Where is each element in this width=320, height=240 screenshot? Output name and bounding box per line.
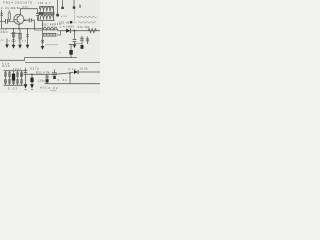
electrolytic C plus wire down x71 [69, 44, 74, 46]
small label mid [59, 20, 69, 24]
cap column x82 [81, 36, 83, 45]
label 455 [61, 16, 68, 18]
transistor label TR24 2SC1675 [3, 1, 32, 5]
wire vertical x34.5 [34, 20, 36, 30]
label AGC left [1, 30, 8, 34]
faint pencil text rows top right [77, 16, 97, 17]
bias column 3 [27, 29, 29, 46]
wire emitter down [18, 24, 20, 29]
transformer side wires [39, 6, 54, 20]
ground arrow x25.5 [24, 84, 28, 88]
ladder column 2 [9, 71, 11, 86]
resistor zigzag on wire [88, 29, 96, 33]
text below [38, 80, 46, 83]
column x25.5 cap [25, 69, 27, 85]
wire top right x74 with terminal [73, 0, 75, 7]
ladder column 3 dark [13, 71, 15, 86]
bottom long wire [45, 83, 101, 85]
coil L1 horizontal [43, 27, 57, 30]
polarity mark + [60, 52, 62, 55]
junction blob x57.5 [56, 14, 59, 17]
labels 1.0 37u [25, 68, 40, 71]
electrolytic at x54.5 [54, 69, 56, 72]
faint feed wire [74, 9, 76, 21]
cap column x87.5 [87, 37, 89, 45]
resistor R11 vertical [8, 13, 10, 20]
arrow col2 [18, 45, 22, 49]
ladder bottom text [8, 87, 18, 91]
transformer T1 primary winding [40, 7, 53, 12]
audio wire main [24, 73, 53, 75]
bus wire B long [25, 61, 100, 63]
label C14 [1, 29, 8, 32]
text 1N60 [60, 25, 75, 28]
transformer T1 core [39, 13, 55, 15]
diode D2 [74, 70, 78, 74]
junction dot +B [70, 21, 72, 23]
detector wire [58, 30, 101, 32]
ground arrow x32 [30, 84, 34, 88]
label S1 [2, 61, 10, 65]
ladder column 1 [5, 71, 7, 86]
transistor Q1 circle [14, 14, 24, 24]
ladder column 5 [21, 71, 23, 86]
chassis ticks [25, 88, 33, 90]
ladder block label [3, 64, 22, 71]
value text above transformer T1 [38, 1, 52, 5]
bias column 2 [19, 29, 21, 46]
column x32 blob [31, 74, 33, 84]
label 100 [55, 23, 62, 26]
ladder top bus [4, 70, 24, 72]
junction dot x32 [31, 74, 33, 76]
junction dot [74, 30, 76, 32]
bias column 1 [13, 29, 15, 46]
text R31 4.7k [36, 71, 50, 75]
label 0.1 [48, 72, 54, 74]
capacitor C33 to bottom rail [46, 74, 48, 83]
cap column x74.5 [74, 31, 76, 45]
transformer T1 top line [40, 5, 54, 7]
arrow col3 [26, 45, 30, 49]
wire top feed x57.5 [57, 0, 59, 15]
label row left values [1, 6, 21, 10]
wire collector up [21, 9, 38, 15]
wire to coil [35, 29, 43, 31]
output wire [78, 71, 100, 73]
wire left edge vertical [1, 10, 3, 29]
winding row 2 hatched [43, 33, 57, 36]
capacitor C11 bars on base wire [6, 19, 8, 24]
wire top right x62.5 with terminal [62, 0, 64, 8]
emitter bus horizontal [1, 28, 43, 30]
text 3.3k [58, 78, 68, 82]
transformer T1 bottom line [39, 20, 55, 22]
paper grain overlay [0, 0, 100, 93]
arrow col x42.5 [41, 46, 45, 50]
text S2 [40, 87, 47, 90]
transformer T1 secondary winding [40, 15, 53, 19]
link line [75, 43, 83, 45]
faint wire under coil [45, 44, 58, 46]
left AGC column [6, 39, 8, 45]
capacitor bars on x42.5 [41, 40, 44, 42]
bias value labels [0, 40, 26, 43]
ladder bottom bus [4, 84, 24, 86]
wire base [0, 20, 14, 22]
bus wire A with step [0, 58, 77, 61]
ladder column 4 [17, 71, 19, 86]
terminal mark x80 [79, 5, 81, 9]
capacitor on transformer lead [37, 9, 39, 21]
oscillator coil text [42, 22, 56, 26]
wire step down [53, 72, 75, 84]
wire transformer tap down x42.5 [42, 21, 44, 46]
text above D2 [69, 68, 89, 71]
text 47k [78, 25, 91, 29]
arrow col1 [12, 45, 16, 49]
capacitor on collector branch [24, 19, 35, 21]
diode D1 [66, 29, 70, 33]
short bias wire [11, 32, 22, 34]
text below bottom wire [49, 86, 59, 90]
